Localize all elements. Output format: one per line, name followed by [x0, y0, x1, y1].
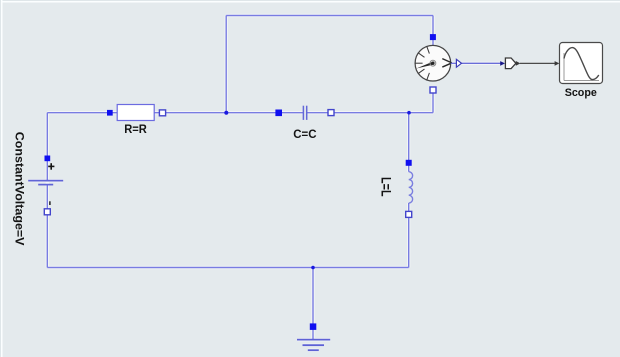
- wire: top horizontal from node above capacitor junction to sensor: [226, 15, 433, 17]
- scope axes: [564, 53, 599, 81]
- voltage sensor body (gauge): [415, 45, 451, 81]
- resistor pin p (filled square): [107, 110, 113, 116]
- scope block body: [560, 43, 603, 84]
- junction node at top-wire tap: [224, 111, 228, 115]
- svg-text:R=R: R=R: [124, 124, 147, 136]
- signal line to scope (gray): [520, 62, 555, 64]
- voltage source label ConstantVoltage=V (rotated): [12, 132, 24, 246]
- voltage sensor needle: [416, 61, 434, 68]
- sensor output connector (open triangle): [456, 59, 461, 67]
- wire: left vertical through voltage source branch: [46, 113, 48, 268]
- wire: sensor bottom pin down to main row: [432, 93, 434, 113]
- capacitor value label C=C: [293, 129, 316, 141]
- junction node at inductor/sensor tap: [407, 111, 411, 115]
- capacitor pin p (filled square): [275, 110, 282, 117]
- ground symbol lines: [297, 340, 330, 351]
- scope label: [565, 87, 597, 99]
- capacitor pin n (open square): [328, 110, 334, 116]
- resistor pin n (open square): [159, 110, 165, 116]
- scope waveform curve: [564, 48, 599, 80]
- resistor R value label R=R: [124, 124, 147, 136]
- voltage source plus sign: [48, 163, 54, 170]
- voltage source minus sign (rotated): [49, 201, 51, 205]
- ground pin (filled square): [310, 323, 317, 330]
- resistor R body: [117, 105, 154, 121]
- svg-text:Scope: Scope: [565, 87, 597, 99]
- voltage sensor needle hub: [430, 60, 436, 66]
- voltage source pin n (open square): [44, 209, 50, 215]
- svg-text:L=L: L=L: [379, 177, 394, 197]
- voltage sensor pin n (open square): [430, 87, 436, 93]
- svg-text:C=C: C=C: [293, 129, 316, 141]
- svg-text:ConstantVoltage=V: ConstantVoltage=V: [12, 132, 24, 246]
- voltage sensor V text (rotated, appears as >): [442, 59, 452, 68]
- voltage source battery long plate: [28, 180, 63, 182]
- wire: right vertical (inductor branch): [408, 113, 410, 268]
- inductor pin p (filled square): [406, 160, 412, 166]
- signal wire: sensor output to converter: [451, 62, 501, 64]
- inductor value label L=L (rotated): [379, 177, 394, 197]
- voltage source battery short plate: [38, 184, 53, 186]
- voltage sensor pin p (filled square): [430, 34, 436, 40]
- wire: left vertical drop from top wire to main row: [225, 16, 227, 113]
- wire halo casing: [28, 16, 501, 351]
- wire: main row horizontal (capacitor right plate to sensor corner): [307, 112, 433, 114]
- signal arrowhead into converter (navy): [500, 61, 505, 66]
- scope input arrowhead (gray): [555, 61, 560, 66]
- converter block (pentagon): [505, 58, 516, 69]
- wire: vertical from top wire down to voltage sensor top pin: [432, 16, 434, 46]
- voltage sensor tick marks: [415, 46, 429, 79]
- inductor pin n (open square): [406, 211, 412, 217]
- wire: bottom horizontal: [47, 267, 408, 269]
- wire: main row horizontal (source to capacitor left plate): [47, 112, 303, 114]
- wire: ground stem: [312, 268, 314, 340]
- junction node at ground tap: [311, 266, 315, 270]
- converter output arrowhead (gray): [516, 61, 521, 66]
- inductor L coil: [409, 172, 413, 203]
- capacitor C plates: [303, 106, 306, 120]
- voltage source pin p (filled square): [45, 156, 51, 162]
